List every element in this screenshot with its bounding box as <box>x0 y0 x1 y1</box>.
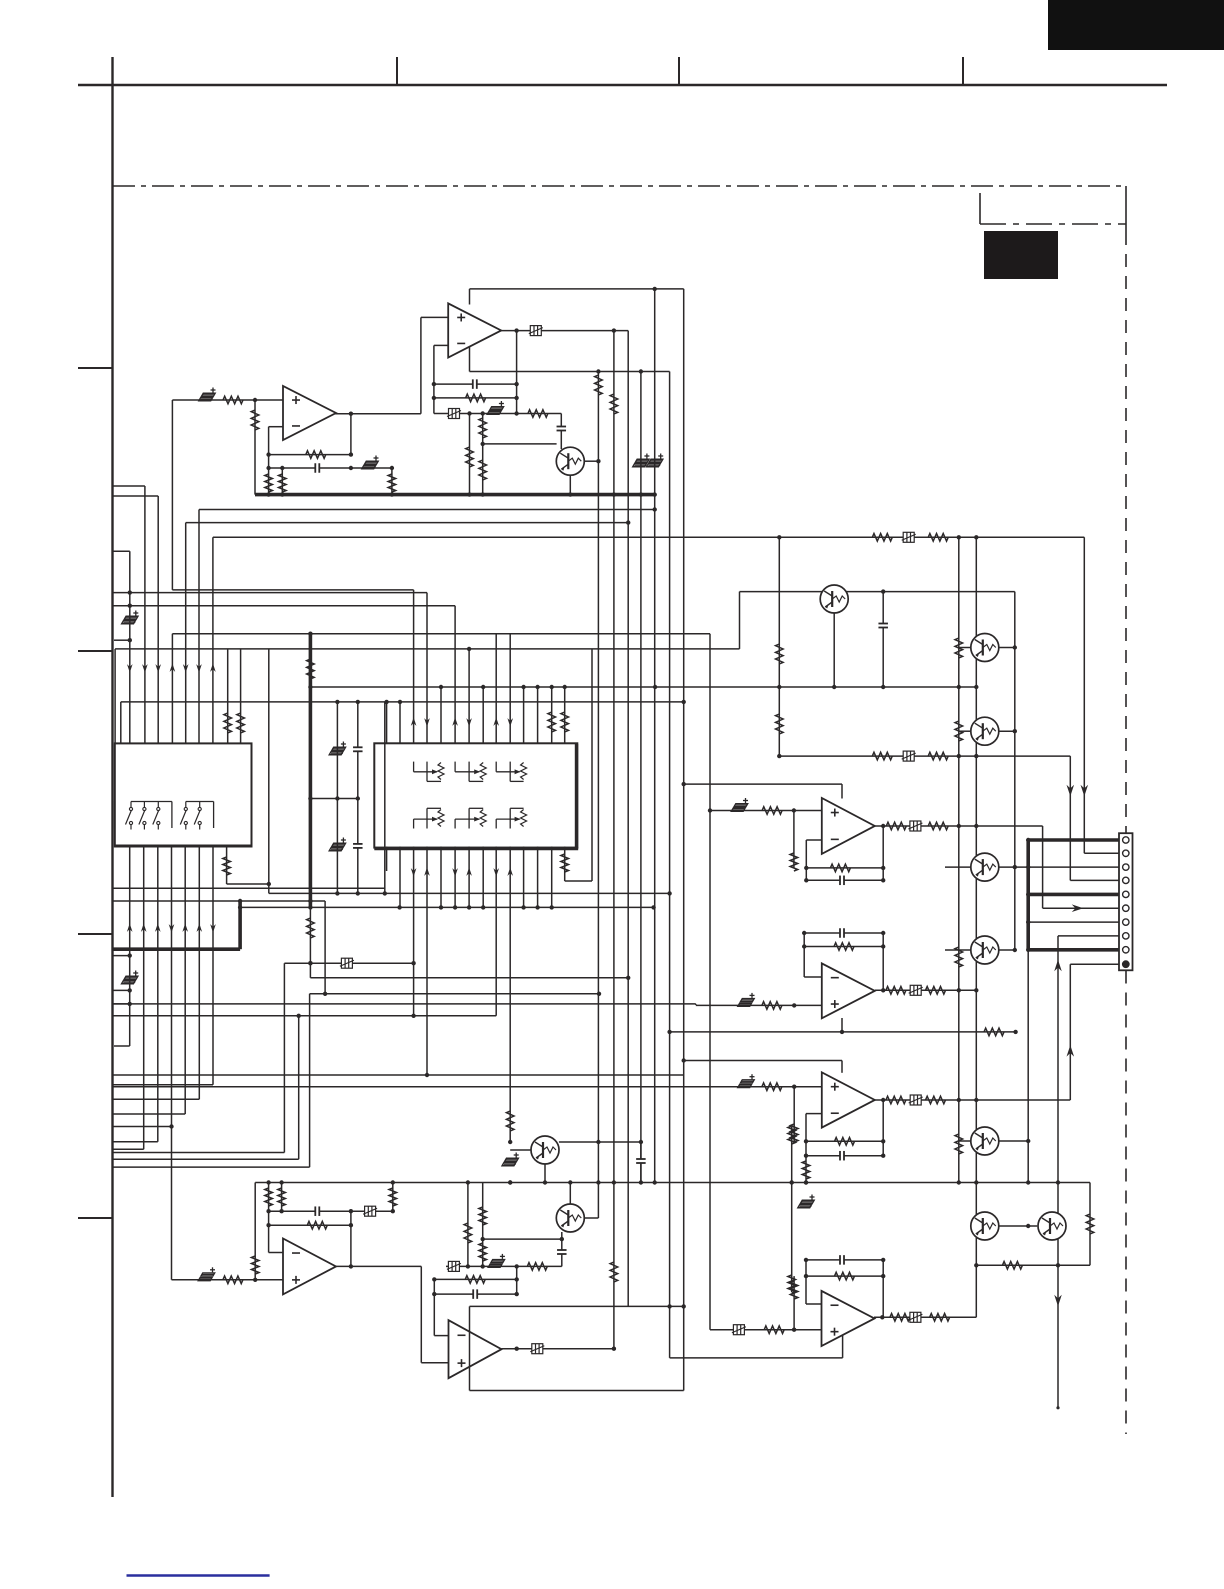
wire U5 fb col <box>805 1114 807 1183</box>
capacitor C19 <box>840 928 845 938</box>
transistor Q7 <box>971 1127 999 1155</box>
junctions U5 out <box>881 1098 885 1158</box>
wire box pin b9 <box>495 847 497 1016</box>
signal rail 1060 <box>684 1060 842 1062</box>
junctions col779 <box>777 754 781 758</box>
electrolytic C8 <box>647 454 664 467</box>
electrolytic C30 <box>798 1195 815 1208</box>
wire R5 col <box>482 444 484 495</box>
wire bundle col A4 <box>171 634 173 744</box>
wire U5 cap row <box>806 1155 883 1157</box>
wire col 640 long <box>640 372 642 1184</box>
electrolytic C7 <box>633 454 650 467</box>
resistor R8 <box>306 451 326 459</box>
wire Q6 right stub <box>999 949 1015 951</box>
power rail 949 thick <box>113 947 240 951</box>
wire col 976 long <box>975 537 977 1317</box>
wire box pin b7 <box>468 847 470 908</box>
electrolytic C14 <box>122 971 139 984</box>
wire U3 +in chain <box>710 810 822 812</box>
junction U2 out <box>349 412 353 416</box>
wire col 683 long <box>683 289 685 1391</box>
wire col 384 <box>384 702 386 894</box>
wire Q3 right stub <box>999 647 1015 649</box>
connector CN1 outline <box>1119 833 1133 970</box>
left page border <box>111 57 113 1497</box>
arrow box in 4 <box>466 718 472 727</box>
junction U7 out col <box>612 1347 616 1351</box>
junctions rail993 <box>323 992 601 996</box>
transistor Q2 <box>820 585 848 613</box>
wire down arrow col <box>1057 1265 1059 1408</box>
wire R11 col <box>391 468 393 495</box>
wire pin1 (thick) <box>1028 838 1119 842</box>
signal rail 901 <box>113 900 325 902</box>
ferrite bead FB1 <box>529 326 543 336</box>
wire box pin t10 <box>509 634 511 744</box>
wire cap col 883 <box>882 592 884 687</box>
resistor R50 <box>251 1256 259 1274</box>
switch S3 <box>153 802 160 830</box>
resistor R20 <box>561 712 569 732</box>
wire U7 +in link <box>421 1362 448 1364</box>
junctions rail1266 <box>466 1264 519 1268</box>
wire U1 +in <box>421 316 448 318</box>
op-amp U8 <box>822 1291 875 1346</box>
wire col 325 <box>324 901 326 994</box>
junctions U3 out col <box>881 824 885 883</box>
variable resistor VR2 <box>455 762 486 782</box>
junctions U3 fb <box>804 866 808 883</box>
wire border rail 1152 <box>113 1152 284 1154</box>
wire box pin t8 <box>482 687 484 743</box>
wire stub 955 <box>113 955 130 957</box>
switch block bottom heavy edge <box>115 845 252 848</box>
resistor R66 <box>1002 1262 1022 1270</box>
resistor R54 <box>389 1188 397 1206</box>
wire Q8 right row <box>559 1141 642 1143</box>
wire U6 res row <box>269 1224 351 1226</box>
wire U3 over-top <box>684 783 842 785</box>
resistor R60 <box>610 1262 618 1282</box>
wire col 710 long <box>709 634 711 1330</box>
wire U6 fbcol a <box>268 1183 270 1253</box>
resistor R53 <box>307 1221 327 1229</box>
wire bundle col A5 <box>185 523 187 744</box>
resistor R24 <box>984 1028 1004 1036</box>
wire col 695 jog <box>695 1004 697 1005</box>
wire U1 cap row <box>434 383 517 385</box>
connector pin 7 <box>1123 919 1129 925</box>
wire U8 bias row <box>670 1357 843 1359</box>
wire res col 226 below box <box>226 847 228 885</box>
resistor R12 <box>595 375 603 395</box>
wire bundle col B1 <box>129 847 131 1047</box>
callout box left edge <box>979 193 981 224</box>
wire U2 +src riser <box>171 400 173 590</box>
junctions rail702 <box>335 700 686 704</box>
wire border rail 1126 <box>113 1126 171 1128</box>
resistor R68 <box>788 1275 796 1293</box>
wire Q2 emitter <box>833 613 835 687</box>
resistor R15 <box>928 534 948 542</box>
junction Q1 right <box>596 459 600 463</box>
junctions on bus AVCC <box>266 492 657 496</box>
signal rail 756 <box>779 755 1070 757</box>
left fold tick 2 <box>78 650 113 652</box>
connector pin 1 <box>1123 837 1129 843</box>
arrow pin8 up <box>1054 960 1062 972</box>
transistor Q5 <box>971 853 999 881</box>
wire Q7 left stub <box>959 1140 971 1142</box>
junction U2 fb col <box>266 452 270 456</box>
junctions rail1031 <box>667 1030 1017 1034</box>
resistor R4 <box>479 418 487 438</box>
wire box pin t4 <box>426 593 428 744</box>
transistor Q10 <box>971 1212 999 1240</box>
ferrite bead FB13 <box>908 1312 922 1322</box>
connector pin 8 <box>1123 933 1129 939</box>
junction Q8 top <box>508 1140 512 1144</box>
wire pin7 row <box>1028 921 1119 923</box>
resistor R6 <box>223 396 243 404</box>
wire U5 -in <box>806 1113 822 1115</box>
wire U4 -in <box>804 976 822 978</box>
variable resistor VR1 <box>414 762 444 782</box>
wire 564-592 link <box>565 880 592 882</box>
switch block SW-A outline <box>115 743 252 846</box>
resistor R58 <box>479 1243 487 1261</box>
connector pin 6 <box>1123 905 1129 911</box>
connector pin 4 <box>1123 877 1129 883</box>
power rail 907 bus <box>240 906 653 908</box>
wire box pin b2 <box>399 847 401 908</box>
wire U7 loop top <box>470 1305 684 1307</box>
electrolytic C4 <box>199 388 216 401</box>
wire U1 row 413 <box>434 413 561 415</box>
wire box pin t6 <box>454 606 456 744</box>
wire U8 cap row <box>806 1259 883 1261</box>
junctions rail901 <box>238 899 313 903</box>
junctions U5 fb <box>804 1139 808 1185</box>
arrow into SW2 <box>142 664 148 673</box>
junction U1 out / col614 <box>612 328 616 332</box>
wire U6 out col <box>350 1211 352 1266</box>
wire pin4 row <box>1070 879 1119 881</box>
wire U2 out col <box>350 414 352 455</box>
transistor Q3 <box>971 634 999 662</box>
junctions pin3 row <box>1026 865 1030 869</box>
wire box pin b13 <box>551 847 553 908</box>
wire box pin b10 <box>509 847 511 1143</box>
resistor R16 <box>224 713 232 733</box>
junctions Q9 base <box>481 1237 565 1241</box>
op-amp U2 <box>283 386 336 440</box>
wire 310-357 link <box>310 798 357 800</box>
junction col683 1060 <box>682 1058 686 1062</box>
arrow box in 3 <box>452 717 458 726</box>
resistor R32 <box>928 752 948 760</box>
wire U4 out riser <box>882 933 884 990</box>
signal rail 1075 <box>113 1074 684 1076</box>
wire U2 -in <box>269 426 283 428</box>
ferrite bead FB8 <box>909 1095 923 1105</box>
wire box pin t3 <box>413 590 415 743</box>
arrow box out 4 <box>466 867 472 876</box>
top rule tick 3 <box>962 57 964 85</box>
wire U1 V- stub <box>469 347 471 372</box>
wire col 1090 <box>1089 1183 1091 1266</box>
wire pin9 (thick) <box>1028 948 1119 952</box>
wire pin6 row <box>1043 907 1119 909</box>
resistor R30 <box>955 1134 963 1154</box>
switch S2 <box>139 802 146 830</box>
signal rail 888 <box>113 887 385 889</box>
signal rail 589 <box>172 589 413 591</box>
resistor R57 <box>479 1207 487 1225</box>
wire U8 +in chain <box>710 1329 822 1331</box>
arrow SW in 4 <box>169 924 175 933</box>
capacitor C24 <box>557 1250 567 1255</box>
resistor R55 <box>464 1223 472 1243</box>
resistor R48 <box>506 1111 514 1131</box>
transistor Q9 <box>556 1204 584 1232</box>
junction U3 overtop <box>682 782 686 786</box>
terminal dot <box>1056 1406 1059 1409</box>
junction Q1 base row <box>481 442 485 446</box>
junction rail509 end <box>653 507 657 511</box>
wire left col into box <box>114 649 116 743</box>
wire U6 fbcol b <box>281 1183 283 1212</box>
arrow pin10 up <box>1067 1045 1075 1057</box>
wire border rail 1167 <box>113 1166 309 1168</box>
variable resistor VR5 <box>455 808 486 828</box>
junction U3 +in <box>792 808 796 812</box>
wire U8 out riser <box>882 1260 884 1317</box>
wire col 482 low <box>482 1183 484 1267</box>
junctions rail756 <box>957 754 979 758</box>
wire bundle col A1 <box>129 551 131 743</box>
junction U6 out <box>349 1264 353 1268</box>
wire col 564 below box <box>564 847 566 882</box>
electrolytic C22 <box>502 1153 519 1166</box>
wire U5 res row <box>806 1140 883 1142</box>
wire bundle col A2 <box>144 486 146 743</box>
resistor R61 <box>764 1326 784 1334</box>
wire col 1014 lower <box>1014 867 1016 950</box>
ferrite bead FB5 <box>902 751 916 761</box>
wire box pin t13 <box>551 687 553 743</box>
resistor R3 <box>466 447 474 467</box>
resistor R31 <box>872 752 892 760</box>
wire col 268 <box>268 649 270 894</box>
left fold tick 1 <box>78 367 113 369</box>
junction U2 +in <box>253 398 257 402</box>
wire stub border f <box>113 495 159 497</box>
signal rail 648 <box>115 648 739 650</box>
electrolytic C2 <box>487 401 504 414</box>
junctions U1 -in col <box>432 382 436 400</box>
junctions col310 <box>308 685 312 910</box>
junctions rail893 <box>335 891 672 895</box>
resistor R42 <box>762 1083 782 1091</box>
left fold tick 4 <box>78 1217 113 1219</box>
wire pin8 row <box>1058 935 1119 937</box>
wire U5 out riser <box>882 1100 884 1156</box>
wire border rail 1149 <box>113 1148 144 1150</box>
junction Q10 link <box>1026 1224 1030 1228</box>
resistor R44 <box>802 1161 810 1179</box>
wire Q1 right <box>584 460 598 462</box>
wire U3 -in <box>806 839 822 841</box>
resistor R49 <box>223 1276 243 1284</box>
wire col 337 <box>336 702 338 894</box>
wire U7 output row <box>502 1348 615 1350</box>
signal rail 522 <box>186 522 629 524</box>
op-amp U7 <box>449 1320 502 1378</box>
wire pin2 row <box>1084 852 1119 854</box>
wire pin10 col <box>1069 964 1071 1100</box>
resistor R11 <box>388 474 396 492</box>
wire box pin t11 <box>523 687 525 743</box>
arrow SW out 3 <box>155 923 161 932</box>
resistor R10 <box>279 474 287 492</box>
wire box pin b3 <box>413 847 415 1016</box>
wire col 669 long <box>669 372 671 1358</box>
electrolytic C11 <box>329 838 346 851</box>
dash-dot board outline top <box>113 185 1126 187</box>
transistor Q11 <box>1038 1212 1066 1240</box>
wire res col 958 <box>958 537 960 1182</box>
wire Q2 row <box>740 591 1015 593</box>
wire U3 res row <box>806 867 883 869</box>
wire bundle col B6 <box>198 847 200 1100</box>
resistor R65 <box>930 1314 950 1322</box>
junction col298 rail1015 <box>297 1014 301 1018</box>
wire U6 +in chain <box>172 1279 284 1281</box>
signal rail 592 <box>130 592 427 594</box>
arrow down feed <box>1054 1295 1062 1307</box>
arrow box in 5 <box>493 717 499 726</box>
switch S1 <box>126 802 133 830</box>
arrow box in 6 <box>507 718 513 727</box>
black title block top right <box>1048 0 1224 50</box>
electrolytic C20 <box>738 1074 755 1087</box>
arrow SW in 7 <box>210 924 216 933</box>
junction rail1075 <box>425 1073 429 1077</box>
arrow into SW3 <box>155 664 161 673</box>
resistor R59 <box>465 1276 485 1284</box>
junctions col516 <box>515 1277 519 1296</box>
wire box pin b8 <box>482 847 484 908</box>
wire U1 -in col <box>433 345 435 413</box>
resistor R56 <box>527 1263 547 1271</box>
resistor R21 <box>223 857 231 875</box>
power bus AVCC (thick) <box>255 493 655 497</box>
electrolytic C9 <box>122 611 139 624</box>
resistor R33 <box>762 807 782 815</box>
wire U4 res row <box>804 946 883 948</box>
wire stub border b <box>113 592 130 594</box>
ferrite bead FB12 <box>732 1325 746 1335</box>
wire U2out to U1 <box>334 413 421 415</box>
op-amp U4 <box>822 963 875 1018</box>
wire U4 +in chain <box>696 1004 822 1006</box>
wire U1 output row <box>500 330 628 332</box>
resistor R39 <box>834 943 854 951</box>
junction rail1015 <box>411 1014 415 1018</box>
arrow box out 1 <box>411 868 417 877</box>
arrow out SW4 <box>170 663 176 672</box>
wire R9 col <box>268 468 270 495</box>
wire U2 fb col <box>268 427 270 468</box>
resistor R5 <box>479 460 487 480</box>
junctions U4 out row <box>957 988 979 992</box>
ferrite bead FB3 <box>902 532 916 542</box>
junctions rail1182 <box>266 1180 1060 1184</box>
wire U7 loop left <box>469 1306 471 1390</box>
junctions col B1 <box>128 953 132 1006</box>
junction U4 +in <box>792 1003 796 1007</box>
signal rail 605 <box>130 605 455 607</box>
junctions U7 fb <box>432 1277 436 1296</box>
connector pin 5 <box>1123 891 1129 897</box>
transistor Q4 <box>971 717 999 745</box>
junction U8 +in <box>792 1328 796 1332</box>
op-amp U6 <box>283 1239 336 1295</box>
junction Q7 right <box>1026 1139 1030 1143</box>
wire border rail 1114 <box>113 1113 185 1115</box>
resistor R2 <box>528 410 548 418</box>
wire col 298 <box>298 1016 300 1160</box>
wire stub border a <box>113 550 130 552</box>
connector pin 3 <box>1123 864 1129 870</box>
resistor R28 <box>955 721 963 741</box>
capacitor C13 <box>353 843 363 848</box>
junction rail648 pin <box>467 647 471 651</box>
signal rail 1003 <box>113 1003 696 1005</box>
signal rail 702 <box>121 701 684 703</box>
signal rail 509 <box>199 509 655 511</box>
wire box pin b11 <box>523 847 525 908</box>
resistor R23 <box>307 918 315 938</box>
resistor R17 <box>237 713 245 733</box>
junctions rail907 <box>238 905 656 909</box>
wire Q10-Q11 link <box>999 1225 1038 1227</box>
capacitor C17 <box>840 876 845 886</box>
wire U6 out drop <box>420 1266 422 1362</box>
wire U5 top feed <box>841 1061 843 1073</box>
junction col791 <box>790 1180 794 1184</box>
wire col 1014 <box>1014 592 1016 868</box>
wire col 628 long <box>627 331 629 1307</box>
top rule tick 2 <box>678 57 680 85</box>
wire Q9 right stub <box>584 1217 598 1219</box>
capacitor C15 <box>878 623 888 628</box>
variable resistor VR4 <box>414 808 444 828</box>
wire U3 output row <box>875 825 1043 827</box>
signal rail 963 <box>284 962 413 964</box>
signal rail 1266 <box>446 1265 562 1267</box>
arrow pin6 <box>1072 904 1084 912</box>
wire U8 output row <box>874 1316 976 1318</box>
resistor R7 <box>251 410 259 430</box>
wire left col 120 into box <box>120 702 122 743</box>
resistor R13 <box>610 394 618 414</box>
signal rail 537 <box>213 536 1084 538</box>
power rail 1182 <box>255 1182 1058 1184</box>
signal rail 633 <box>172 633 710 635</box>
